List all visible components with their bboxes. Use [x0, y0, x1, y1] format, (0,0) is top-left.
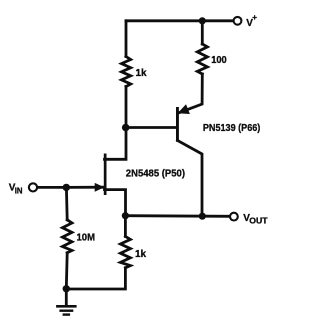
wire right branch upper lead	[201, 21, 204, 44]
node dot ground rail	[63, 285, 70, 292]
resistor R3 10M	[62, 220, 72, 253]
wire emitter lead and diagonal	[178, 74, 203, 113]
svg-text:IN: IN	[15, 186, 23, 195]
wire collector diagonal and riser	[178, 141, 203, 216]
wire gate line from VIN	[38, 186, 104, 189]
svg-text:+: +	[252, 13, 257, 22]
terminal V+ circle	[234, 17, 242, 25]
wire 10M upper lead	[65, 187, 69, 219]
wire left branch upper lead	[125, 21, 128, 57]
jfet Q2 channel bar	[104, 154, 107, 196]
wire 1k bottom upper lead	[124, 216, 127, 237]
resistor R4 1k bottom	[120, 236, 130, 267]
wire base line	[126, 126, 177, 129]
svg-text:1k: 1k	[135, 249, 147, 260]
node dot vin junction	[63, 184, 70, 191]
terminal VOUT circle	[230, 213, 238, 221]
ground	[56, 306, 77, 314]
wire top rail	[126, 19, 233, 22]
transistor Q1 emitter arrow	[178, 104, 190, 114]
wire JFET source lead and riser	[105, 190, 126, 216]
wire left branch lower lead to node A	[125, 87, 128, 128]
wire ground stub	[65, 289, 68, 305]
svg-text:2N5485 (P50): 2N5485 (P50)	[126, 169, 185, 180]
resistor R2 100	[197, 44, 207, 74]
node A dot	[122, 124, 130, 132]
jfet Q2 gate arrow	[95, 183, 105, 192]
wire bottom rail	[66, 268, 125, 289]
svg-text:10M: 10M	[77, 232, 96, 243]
svg-text:PN5139 (P66): PN5139 (P66)	[203, 123, 260, 134]
node dot top rail	[199, 17, 206, 24]
svg-text:OUT: OUT	[249, 217, 268, 226]
node dot collector vout rail	[199, 213, 206, 220]
wire vout rail	[125, 214, 229, 217]
node dot source vout rail	[122, 212, 129, 219]
wire 10M lower lead	[65, 253, 69, 289]
wire node A down to JFET drain	[105, 128, 127, 160]
terminal VIN circle	[29, 183, 37, 191]
resistor R1 1k top-left	[122, 57, 131, 87]
svg-text:100: 100	[211, 55, 227, 66]
transistor Q1 base bar	[176, 107, 179, 142]
svg-text:1k: 1k	[136, 68, 148, 79]
